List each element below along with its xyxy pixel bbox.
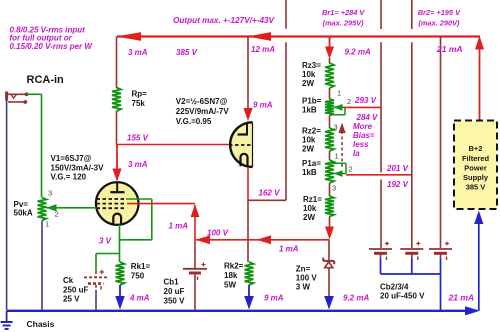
wire Rp branch from bus bbox=[116, 37, 118, 89]
svg-text:385 V: 385 V bbox=[466, 183, 486, 192]
svg-text:9.2 mA: 9.2 mA bbox=[343, 294, 369, 303]
wire Ck to chassis bbox=[95, 291, 97, 310]
wire zener top bbox=[328, 240, 330, 260]
svg-text:9.2 mA: 9.2 mA bbox=[345, 48, 371, 57]
svg-text:250 uF: 250 uF bbox=[63, 286, 88, 295]
svg-text:3: 3 bbox=[334, 123, 338, 132]
wire node bbox=[329, 151, 331, 160]
potentiometer P1a bbox=[325, 160, 334, 183]
svg-text:10k: 10k bbox=[303, 204, 317, 213]
svg-text:1: 1 bbox=[335, 152, 339, 161]
svg-text:1kB: 1kB bbox=[302, 168, 317, 177]
svg-text:20 uF: 20 uF bbox=[164, 287, 185, 296]
svg-text:3: 3 bbox=[48, 189, 52, 198]
svg-text:Br2= +195 V: Br2= +195 V bbox=[418, 8, 461, 17]
svg-text:3: 3 bbox=[332, 184, 336, 193]
svg-text:V.G.= 120: V.G.= 120 bbox=[51, 173, 87, 182]
svg-text:(max. 290V): (max. 290V) bbox=[418, 18, 460, 27]
wire bbox=[151, 199, 153, 240]
svg-text:3 V: 3 V bbox=[99, 237, 112, 246]
arrow left mid bbox=[257, 235, 272, 244]
wire supply return bbox=[478, 222, 480, 311]
wire B+ riser from supply, 21 mA bbox=[479, 47, 481, 121]
svg-text:Br1= +284 V: Br1= +284 V bbox=[322, 8, 365, 17]
svg-text:25 V: 25 V bbox=[63, 295, 80, 304]
svg-text:Supply: Supply bbox=[463, 173, 489, 182]
V1 grid g3 row bbox=[97, 198, 127, 200]
resistor Rk1 bbox=[116, 262, 125, 285]
svg-text:192 V: 192 V bbox=[387, 180, 409, 189]
svg-text:Rk1=: Rk1= bbox=[131, 262, 151, 271]
svg-text:75k: 75k bbox=[132, 99, 146, 108]
svg-text:350 V: 350 V bbox=[164, 297, 186, 306]
wire to Cb1 bbox=[194, 242, 196, 269]
svg-text:100 V: 100 V bbox=[207, 229, 229, 238]
svg-text:2W: 2W bbox=[302, 145, 314, 154]
potentiometer P1b bbox=[325, 99, 334, 116]
wire node 3 bbox=[329, 116, 331, 129]
V2 cathode bbox=[241, 154, 248, 166]
resistor Rz1 bbox=[325, 196, 334, 217]
capacitor Ck bbox=[84, 276, 108, 278]
P1b wiper tie bbox=[334, 106, 345, 108]
resistor Rk2 bbox=[245, 262, 254, 285]
V1 grid g1 row bbox=[97, 207, 127, 209]
svg-text:293 V: 293 V bbox=[354, 96, 377, 105]
svg-text:1kB: 1kB bbox=[302, 106, 317, 115]
dashed arrow More Bias bbox=[341, 131, 343, 169]
wire third rail from bus bbox=[440, 37, 442, 249]
wire cap to return bbox=[380, 253, 382, 258]
wire V1 cathode down bbox=[119, 225, 121, 262]
svg-text:Rz2=: Rz2= bbox=[302, 127, 321, 136]
svg-text:Chasis: Chasis bbox=[27, 319, 55, 329]
svg-text:P1b=: P1b= bbox=[302, 97, 322, 106]
wire bbox=[120, 239, 152, 241]
wire cap return bus bbox=[381, 273, 441, 275]
wire Ck branch bbox=[96, 253, 120, 255]
svg-text:Ia: Ia bbox=[353, 149, 360, 158]
wire Br2 201V feed bbox=[346, 174, 412, 176]
svg-text:2: 2 bbox=[349, 165, 353, 174]
V1 grid g2 row bbox=[97, 203, 127, 205]
tube V2 half-6SN7 envelope bbox=[230, 122, 252, 167]
wire Br1 293V feed bbox=[344, 106, 382, 108]
capacitor Cb4 bbox=[429, 248, 452, 250]
P1a wiper tie bbox=[334, 173, 346, 175]
svg-text:201 V: 201 V bbox=[386, 164, 409, 173]
tube V1 6SJ7 envelope bbox=[96, 182, 139, 225]
wire Pv to chassis bbox=[41, 221, 43, 311]
svg-text:Rk2=: Rk2= bbox=[224, 262, 244, 271]
wire chassis ground bus bbox=[7, 310, 466, 312]
wire Rk1 to ground, 4 mA bbox=[119, 285, 121, 300]
svg-text:9 mA: 9 mA bbox=[253, 101, 273, 110]
svg-text:9 mA: 9 mA bbox=[264, 294, 284, 303]
capacitor Cb2 bbox=[369, 248, 392, 250]
wire Rz1 down bbox=[329, 217, 331, 228]
svg-text:Bias=: Bias= bbox=[353, 131, 375, 140]
svg-text:3 W: 3 W bbox=[296, 283, 311, 292]
svg-text:50kA: 50kA bbox=[14, 209, 33, 218]
V1 plate bbox=[116, 183, 118, 193]
svg-text:More: More bbox=[353, 122, 373, 131]
arrow into V2 plate bbox=[243, 108, 252, 121]
svg-text:Output max. +-127V/+-43V: Output max. +-127V/+-43V bbox=[173, 16, 276, 25]
svg-text:155 V: 155 V bbox=[127, 134, 149, 143]
wire Rp to 155V node bbox=[116, 111, 118, 145]
wire RCA shield to chassis bbox=[6, 101, 8, 311]
arrow up into bus bbox=[475, 36, 484, 50]
ground symbol bbox=[6, 311, 8, 322]
svg-text:1: 1 bbox=[45, 220, 49, 229]
svg-text:V2=½-6SN7@: V2=½-6SN7@ bbox=[176, 97, 228, 106]
wire screen node down bbox=[194, 205, 196, 242]
wire 155V node to V2 grid bbox=[117, 144, 231, 146]
svg-text:RCA-in: RCA-in bbox=[27, 74, 65, 86]
wire return down bbox=[440, 274, 442, 310]
wire corner to output node bbox=[248, 199, 286, 201]
svg-text:2: 2 bbox=[55, 210, 59, 219]
svg-text:0.15/0.20 V-rms per W: 0.15/0.20 V-rms per W bbox=[10, 42, 94, 51]
svg-text:18k: 18k bbox=[224, 271, 238, 280]
wire zener to chassis, 9.2 mA bbox=[328, 268, 330, 300]
arrow into V1 plate bbox=[112, 169, 121, 182]
svg-text:1 mA: 1 mA bbox=[279, 245, 299, 254]
V2 grid row bbox=[229, 144, 252, 146]
V2 plate bbox=[246, 123, 248, 135]
arrow into 100V node bbox=[325, 227, 334, 240]
wire node bbox=[329, 183, 331, 196]
arrow left at screen node bbox=[196, 235, 211, 244]
wire node 1 bbox=[329, 88, 331, 99]
arrow left end of bus bbox=[117, 32, 142, 41]
resistor Rz3 bbox=[325, 63, 334, 88]
arrow pot Pv wiper bbox=[47, 204, 57, 211]
wire cap to return bbox=[440, 253, 442, 258]
arrow down to chassis bbox=[115, 296, 125, 310]
svg-text:2: 2 bbox=[347, 97, 351, 106]
svg-text:20 uF-450 V: 20 uF-450 V bbox=[380, 292, 425, 301]
V1 cathode bbox=[113, 214, 121, 225]
wire Cb1 to chassis bbox=[194, 273, 196, 310]
svg-text:P1a=: P1a= bbox=[302, 159, 321, 168]
wire 100V / 1 mA line bbox=[196, 239, 330, 241]
svg-text:(max. 295V): (max. 295V) bbox=[323, 18, 365, 27]
wire into V1 plate, 3 mA bbox=[116, 145, 118, 171]
resistor Rp bbox=[112, 88, 121, 112]
wire V1 screen to 100V node bbox=[127, 203, 195, 205]
svg-text:21 mA: 21 mA bbox=[448, 293, 475, 303]
arrow up into supply bbox=[474, 211, 483, 225]
wire top B+ bus bbox=[117, 35, 480, 37]
zener diode Zn bbox=[323, 260, 334, 262]
svg-text:225V/9mA/-7V: 225V/9mA/-7V bbox=[176, 107, 230, 116]
svg-text:Ck: Ck bbox=[63, 276, 74, 285]
svg-text:V.G.=0.95: V.G.=0.95 bbox=[176, 117, 212, 126]
svg-text:Cb2/3/4: Cb2/3/4 bbox=[380, 283, 409, 292]
svg-text:1 mA: 1 mA bbox=[169, 222, 189, 231]
svg-text:3 mA: 3 mA bbox=[128, 48, 148, 57]
svg-text:Cb1: Cb1 bbox=[164, 278, 180, 287]
arrow mid bus at V2 branch bbox=[248, 32, 272, 41]
svg-text:21 mA: 21 mA bbox=[436, 44, 463, 54]
svg-text:162 V: 162 V bbox=[259, 189, 281, 198]
svg-text:3 mA: 3 mA bbox=[128, 160, 148, 169]
svg-text:Power: Power bbox=[464, 164, 487, 173]
svg-text:Rz1=: Rz1= bbox=[303, 195, 322, 204]
svg-text:284 V: 284 V bbox=[356, 113, 379, 122]
svg-text:1: 1 bbox=[337, 89, 341, 98]
wire bias chain from bus, 9.2 mA bbox=[329, 37, 331, 49]
svg-text:150V/3mA/-3V: 150V/3mA/-3V bbox=[51, 163, 105, 172]
RCA-in jack bbox=[5, 92, 8, 101]
wire cathode node down to Rk2 bbox=[247, 200, 249, 262]
svg-text:Zn=: Zn= bbox=[296, 265, 311, 274]
svg-text:B+2: B+2 bbox=[469, 144, 483, 153]
wire V1 grid from Pv wiper bbox=[47, 207, 97, 209]
arrow down to chassis bbox=[244, 296, 254, 310]
svg-text:Rp=: Rp= bbox=[132, 90, 148, 99]
wire Br1 rail bbox=[380, 0, 382, 29]
svg-text:V1=6SJ7@: V1=6SJ7@ bbox=[51, 154, 92, 163]
svg-text:Filtered: Filtered bbox=[462, 154, 490, 163]
svg-text:2W: 2W bbox=[303, 213, 315, 222]
arrow down chain bbox=[325, 47, 334, 60]
svg-text:less: less bbox=[353, 140, 369, 149]
arrow right end of chassis bus bbox=[465, 306, 480, 315]
svg-text:385 V: 385 V bbox=[176, 48, 198, 57]
wire bbox=[95, 254, 97, 272]
capacitor Cb1 bbox=[183, 268, 207, 270]
wire cap to return bbox=[411, 253, 413, 258]
wire V2 cathode down, 162 V bbox=[247, 167, 249, 200]
potentiometer Pv bbox=[38, 198, 47, 221]
resistor Rz2 bbox=[325, 128, 334, 151]
arrow 1 mA up bbox=[191, 204, 200, 217]
wire Rk2 to chassis, 9 mA bbox=[248, 285, 250, 300]
svg-text:750: 750 bbox=[131, 272, 145, 281]
svg-text:5W: 5W bbox=[224, 281, 236, 290]
svg-text:100 V: 100 V bbox=[296, 274, 318, 283]
svg-text:4 mA: 4 mA bbox=[129, 294, 150, 303]
wire output line from top bbox=[285, 0, 287, 29]
wire Br2 rail bbox=[411, 0, 413, 29]
svg-text:Rz3=: Rz3= bbox=[302, 61, 321, 70]
power supply box B+2 bbox=[454, 121, 497, 210]
svg-text:10k: 10k bbox=[302, 136, 316, 145]
wire RCA hot to Pv bbox=[27, 93, 42, 95]
wire V2 plate branch, 12 mA / 9 mA bbox=[247, 37, 249, 111]
capacitor Cb3 bbox=[400, 248, 423, 250]
wire g3 to cathode tie bbox=[126, 198, 152, 200]
svg-text:10k: 10k bbox=[302, 70, 316, 79]
svg-text:2W: 2W bbox=[302, 79, 314, 88]
svg-text:12 mA: 12 mA bbox=[251, 45, 275, 54]
